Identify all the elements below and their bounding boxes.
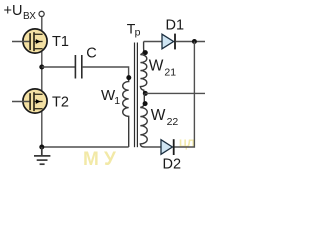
svg-text:У: У (104, 149, 116, 170)
node +Ubx input terminal circle (39, 11, 44, 16)
svg-text:W: W (149, 58, 164, 75)
transformer Tp core (135, 43, 138, 148)
node center tap junction (143, 91, 148, 96)
node A junction T1/T2 to capacitor (39, 65, 44, 70)
winding W22 secondary bottom (140, 93, 147, 147)
svg-text:+U: +U (4, 3, 23, 19)
svg-text:М: М (83, 149, 99, 170)
transistor T1 (12, 29, 47, 53)
phasing dot W22 (143, 101, 148, 106)
svg-text:W: W (151, 107, 166, 124)
svg-text:21: 21 (164, 67, 176, 79)
wire right rail output down to D2 (175, 42, 195, 148)
wire W1 bottom to ground junction (42, 146, 129, 148)
wire center tap to right edge (145, 92, 205, 94)
winding W1 primary (123, 76, 129, 147)
winding W21 secondary top (140, 42, 146, 94)
transistor T2 (12, 89, 47, 113)
svg-text:ВХ: ВХ (23, 11, 36, 22)
node D1/D2 output junction (192, 39, 197, 44)
wire capacitor to W1 top (83, 67, 129, 76)
wire W21 top to D1 anode (144, 41, 162, 43)
svg-text:Т1: Т1 (52, 34, 69, 50)
svg-text:Т2: Т2 (52, 94, 69, 110)
svg-text:р: р (135, 27, 141, 39)
svg-text:D2: D2 (163, 156, 182, 172)
svg-text:D1: D1 (166, 17, 185, 33)
svg-text:ЦЛ: ЦЛ (179, 138, 195, 150)
capacitor C (75, 55, 81, 79)
wire junction A to capacitor (42, 66, 75, 68)
wire W22 bottom to D2 anode (144, 146, 161, 148)
wire D1 cathode to output node (176, 41, 205, 43)
svg-text:С: С (86, 46, 96, 62)
node B junction T2 source / ground (39, 145, 44, 150)
watermark МУ bottom center (83, 149, 116, 170)
svg-text:1: 1 (114, 95, 120, 107)
phasing dot W1 (126, 75, 131, 80)
phasing dot W21 (143, 50, 148, 55)
diode D2 (161, 139, 174, 155)
ground (34, 147, 50, 164)
diode D1 (162, 34, 175, 50)
svg-text:22: 22 (167, 116, 179, 128)
wire left rail from +Ubx terminal down through T1,T2 to ground (41, 16, 43, 147)
